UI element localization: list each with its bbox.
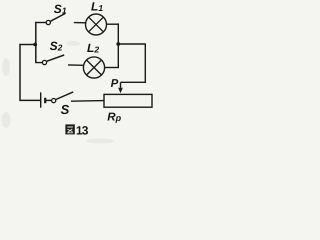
wire bottom to rheostat bbox=[71, 100, 105, 103]
switch S2 blade bbox=[47, 55, 65, 61]
node junction left bbox=[33, 43, 37, 47]
switch S1 pivot bbox=[46, 20, 50, 24]
wire S2 to L2 bbox=[68, 64, 84, 66]
lamp L2 bbox=[83, 57, 104, 78]
wire corner to S2 bbox=[36, 61, 43, 62]
rheostat wiper arrow bbox=[118, 82, 123, 93]
switch S blade bbox=[56, 92, 73, 100]
wire branch vertical bbox=[35, 22, 37, 62]
wire battery to switch S bbox=[46, 99, 52, 101]
wire left vertical with bottom corner bbox=[20, 45, 40, 101]
wire L2 to vertical bbox=[105, 67, 119, 69]
paper background bbox=[0, 0, 160, 147]
battery B short plate bbox=[44, 98, 46, 103]
node junction right bbox=[116, 42, 120, 46]
battery B long plate bbox=[40, 92, 42, 107]
caption figure 13 glyph tu bbox=[65, 124, 74, 134]
rheostat Rp body bbox=[104, 94, 152, 107]
wire lamps right vertical bbox=[117, 23, 119, 67]
switch S1 blade bbox=[50, 14, 65, 22]
svg-text:S: S bbox=[61, 102, 70, 117]
lamp L1 bbox=[86, 14, 107, 35]
wire junction to right vertical bbox=[118, 43, 146, 45]
svg-text:Rp: Rp bbox=[107, 111, 121, 123]
faint scan artifacts bbox=[2, 41, 115, 144]
switch S pivot bbox=[52, 99, 56, 103]
svg-text:P: P bbox=[111, 78, 119, 90]
svg-text:13: 13 bbox=[76, 124, 89, 138]
switch S2 pivot bbox=[42, 60, 46, 64]
wire wiper to right vertical bbox=[121, 44, 146, 82]
wire S1 to L1 bbox=[74, 22, 87, 24]
wire corner to S1 bbox=[36, 22, 46, 24]
wire L1 to vertical bbox=[106, 23, 119, 25]
